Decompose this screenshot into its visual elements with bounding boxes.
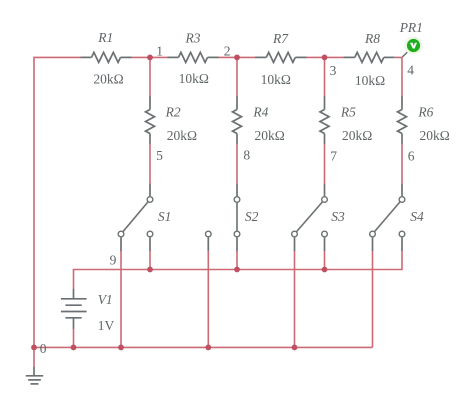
svg-text:20kΩ: 20kΩ [93, 72, 123, 87]
junction S1 left on bus 0 [118, 345, 124, 351]
wire node 2 to R7 [237, 56, 256, 58]
junction battery on bus 0 [71, 345, 77, 351]
svg-text:S4: S4 [410, 209, 424, 224]
node 3 junction dot [322, 55, 328, 61]
svg-text:R4: R4 [252, 105, 268, 120]
battery V1 [61, 289, 87, 329]
resistor R6 [398, 96, 407, 144]
svg-text:1: 1 [156, 43, 163, 58]
svg-text:1V: 1V [98, 318, 115, 333]
svg-text:R3: R3 [185, 31, 201, 46]
svg-text:3: 3 [330, 63, 337, 78]
svg-text:0: 0 [40, 341, 47, 356]
ground [26, 367, 43, 384]
wire S1 right throw to bus 9 [149, 250, 151, 270]
svg-text:9: 9 [110, 252, 117, 267]
node 2 junction dot [234, 55, 240, 61]
svg-text:V1: V1 [98, 292, 113, 307]
wire battery V1 bottom lead to bus 0 [73, 329, 75, 348]
svg-text:R5: R5 [340, 105, 356, 120]
svg-text:10kΩ: 10kΩ [355, 73, 385, 88]
svg-text:R7: R7 [272, 31, 289, 46]
wire S4 left throw down to bus 0 [372, 250, 374, 347]
switch S3 [292, 184, 328, 251]
junction S2 left on bus 0 [205, 345, 211, 351]
junction S2 on bus 9 [234, 267, 240, 273]
wire node 3 to R8 [325, 56, 345, 58]
wire R3 to node 2 [218, 56, 237, 58]
node 1 junction dot [147, 55, 153, 61]
svg-text:5: 5 [156, 148, 163, 163]
wire bus 0 ground bus [34, 346, 373, 348]
wire S3 right throw to bus 9 [324, 250, 326, 270]
switch S4 [370, 184, 405, 251]
svg-text:2: 2 [224, 43, 231, 58]
junction S3 left on bus 0 [292, 345, 298, 351]
wire S1 left throw down to bus 0 [120, 250, 122, 347]
wire node 1 down to R2 [149, 57, 151, 96]
resistor R7 [255, 52, 306, 62]
resistor R1 [81, 52, 132, 62]
svg-text:20kΩ: 20kΩ [255, 128, 285, 143]
svg-text:20kΩ: 20kΩ [342, 128, 372, 143]
wire R8 to node 4 corner down to R6 [395, 57, 402, 96]
svg-text:PR1: PR1 [399, 20, 423, 35]
svg-text:R6: R6 [417, 105, 433, 120]
wire top rail segment R1 to node 1 [131, 56, 150, 58]
svg-text:8: 8 [243, 148, 250, 163]
junction node 0 left on bus 0 [31, 345, 37, 351]
switch S2 [205, 184, 239, 251]
wire R6 to switch S4 [401, 144, 403, 185]
resistor R5 [320, 96, 329, 144]
resistor R4 [233, 96, 242, 144]
svg-text:20kΩ: 20kΩ [420, 128, 450, 143]
wire S2 right throw to bus 9 [236, 250, 238, 270]
svg-text:7: 7 [330, 149, 337, 164]
switch S1 [118, 184, 153, 251]
wire node 2 down to R4 [236, 57, 238, 96]
svg-text:R8: R8 [364, 31, 380, 46]
svg-text:S3: S3 [331, 209, 345, 224]
wire S2 left throw down to bus 0 [207, 250, 209, 347]
resistor R3 [168, 52, 219, 62]
resistor R2 [146, 96, 155, 144]
wire S3 left throw down to bus 0 [294, 250, 296, 347]
wire node 1 to R3 [150, 56, 168, 58]
svg-text:S2: S2 [245, 209, 259, 224]
svg-text:R2: R2 [165, 105, 181, 120]
svg-text:20kΩ: 20kΩ [167, 128, 197, 143]
wire R4 to switch S2 [236, 144, 238, 185]
wire bus 9 from S4 right throw to battery top [74, 250, 403, 289]
wire R7 to node 3 [306, 56, 325, 58]
svg-text:10kΩ: 10kΩ [261, 72, 291, 87]
svg-text:S1: S1 [158, 209, 172, 224]
junction S3 on bus 9 [322, 267, 328, 273]
probe PR1 [402, 36, 422, 57]
junction S1 on bus 9 [147, 267, 153, 273]
svg-text:R1: R1 [97, 30, 113, 45]
wire ground stem [33, 347, 35, 367]
wire R5 to switch S3 [324, 144, 326, 185]
svg-text:10kΩ: 10kΩ [179, 71, 209, 86]
svg-text:6: 6 [408, 149, 415, 164]
wire R2 to switch S1 [149, 144, 151, 185]
wire left rail from top-left corner down to ground bus [34, 57, 81, 347]
wire node 3 down to R5 [324, 57, 326, 96]
svg-text:4: 4 [407, 62, 414, 77]
resistor R8 [344, 52, 395, 62]
